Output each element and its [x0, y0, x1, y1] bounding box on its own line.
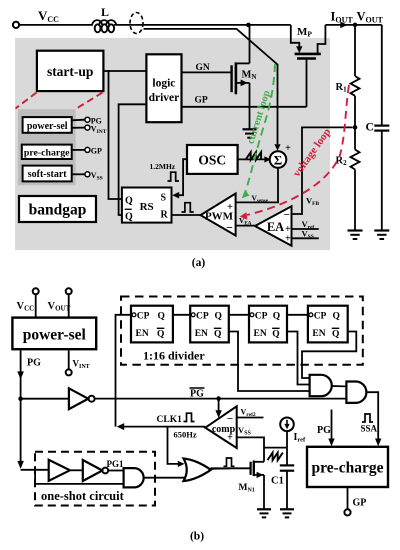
wire RS Q to logic driver [109, 71, 147, 199]
node GP terminal b [344, 509, 350, 515]
pulse symbol SSA [362, 414, 373, 422]
pulse symbol at S [168, 172, 180, 181]
logic driver block [146, 54, 181, 122]
svg-text:Q: Q [125, 212, 133, 223]
junction switch node [246, 23, 251, 28]
RS latch U-RS [122, 188, 172, 223]
svg-text:driver: driver [149, 92, 180, 104]
wire PGbar to comp enable [218, 399, 220, 412]
callout red dashed left [16, 93, 37, 109]
svg-text:Q: Q [273, 312, 280, 322]
wire VCC to inductor [19, 24, 93, 26]
oscillator OSC [187, 145, 238, 174]
gate AND2 [346, 382, 366, 403]
svg-text:one-shot circuit: one-shot circuit [41, 489, 125, 503]
pre-charge sub-block [22, 145, 72, 159]
arrowhead into summer left [264, 156, 270, 162]
svg-text:soft-start: soft-start [28, 169, 68, 180]
node VINT terminal b [66, 369, 72, 375]
ground MN1 [257, 509, 271, 517]
svg-text:EN: EN [195, 329, 208, 339]
arrowhead into OR [178, 461, 185, 467]
transistor MP [291, 25, 326, 107]
start-up internals panel [18, 109, 76, 185]
wire 650Hz branch to OR [168, 427, 180, 464]
wire VCC to power-sel [35, 294, 37, 317]
svg-text:EN: EN [254, 329, 267, 339]
svg-text:+: + [227, 202, 233, 213]
bandgap block [19, 196, 96, 222]
svg-text:CP: CP [137, 312, 150, 322]
wire PG into one-shot [21, 469, 49, 471]
wire VINT down [68, 349, 70, 369]
svg-text:power-sel: power-sel [23, 327, 87, 344]
soft-start sub-block [23, 166, 72, 182]
svg-text:R1: R1 [336, 82, 348, 94]
sawtooth symbol VSS ramp [268, 453, 283, 461]
svg-text:VCC: VCC [38, 8, 59, 24]
divider dashed box [121, 297, 363, 365]
gate AND1 [310, 375, 332, 396]
svg-text:Q: Q [272, 329, 279, 339]
pulse symbol MN1 gate [224, 458, 235, 466]
current source Iref [280, 418, 294, 432]
svg-text:+: + [285, 234, 291, 245]
wire B2 to AND3 [108, 470, 123, 472]
resistor R2 [336, 127, 360, 230]
wire FF1 Q to FF2 [173, 314, 190, 316]
gate OR [184, 459, 211, 482]
svg-text:OSC: OSC [198, 153, 226, 168]
wire VSS input [292, 237, 319, 239]
arrowhead CLK into divider [117, 423, 125, 430]
wire FF2 Q to FF3 [229, 314, 249, 316]
svg-text:RS: RS [140, 201, 154, 213]
svg-text:Q: Q [158, 312, 165, 322]
wire current sense line to summer [144, 29, 278, 144]
ground C [374, 231, 389, 240]
callout red dashed right [77, 93, 103, 109]
wire output rail [325, 24, 381, 26]
flip-flop FF3 [249, 306, 287, 343]
figure a background panel [15, 38, 330, 250]
svg-text:Q: Q [333, 312, 340, 322]
wire VOUT to power-sel [68, 294, 70, 317]
inductor L [92, 5, 116, 32]
flip-flop FF1 [131, 306, 173, 343]
arrowhead comp enable [215, 410, 221, 418]
junction R1 top [353, 23, 358, 28]
wire inductor to switch node [114, 24, 291, 26]
junction VFB node [353, 125, 358, 130]
wire one-shot lower branch [35, 470, 124, 484]
wire EA out to PWM minus [236, 225, 255, 227]
svg-text:PG1: PG1 [107, 459, 124, 469]
svg-text:VOUT: VOUT [357, 10, 384, 25]
wire RS Qbar to logic driver [119, 104, 147, 215]
start-up block [37, 51, 104, 91]
svg-text:Σ: Σ [274, 153, 283, 168]
svg-text:R2: R2 [336, 156, 348, 168]
summer sigma [270, 151, 287, 168]
arrowhead PG into pre-charge [328, 439, 334, 447]
wire OSC to RS S input [177, 159, 187, 195]
svg-text:1:16 divider: 1:16 divider [143, 349, 205, 363]
current loop dashed path [246, 64, 276, 192]
svg-text:PG: PG [190, 389, 204, 400]
svg-text:CP: CP [255, 312, 268, 322]
gate AND3 one-shot [124, 468, 144, 487]
arrowhead into summer top [274, 144, 280, 150]
wire VFB feedback [292, 127, 353, 214]
inverter PG [69, 388, 95, 409]
ground C1 [280, 509, 294, 517]
current loop arrowhead [242, 190, 250, 198]
node PG terminal [85, 117, 90, 122]
capacitor C1 [271, 465, 294, 509]
junction PGbar comp [216, 396, 221, 401]
transistor MN1 [211, 461, 265, 510]
svg-text:Q: Q [214, 329, 221, 339]
svg-text:+: + [227, 433, 233, 444]
transistor MN [182, 62, 257, 94]
capacitor C [366, 25, 390, 230]
wire B1 to B2 [70, 469, 83, 471]
wire PGbar net [95, 398, 347, 400]
node VSS terminal [85, 172, 90, 177]
svg-text:start-up: start-up [47, 64, 94, 79]
wire AND1 to AND2 [332, 385, 347, 387]
wire PG rail down [20, 349, 22, 467]
wire MN source to ground [249, 83, 251, 129]
node VCC terminal b [33, 288, 39, 294]
buffer B1 [49, 460, 70, 481]
wire inverter input [21, 398, 69, 400]
svg-text:SSA: SSA [361, 424, 378, 434]
arrowhead IOUT [340, 22, 347, 29]
wire OR to MN1 gate [210, 467, 231, 470]
wire FF2 Qbar to AND1 [229, 332, 310, 392]
error amp EA [255, 206, 292, 245]
wire AND3 to OR [144, 477, 186, 479]
wire MN drain [249, 25, 251, 64]
wire Iref to node [286, 431, 288, 465]
svg-text:EA: EA [267, 220, 284, 234]
power-sel sub-block [23, 117, 72, 133]
svg-text:logic: logic [152, 78, 175, 90]
svg-text:GP: GP [195, 95, 208, 105]
arrowhead PG oneshot [17, 461, 24, 469]
voltage loop arrowhead [240, 212, 248, 220]
svg-text:CP: CP [314, 312, 327, 322]
wire pre-charge to GP [72, 149, 85, 151]
pulse symbol CLK1 [184, 413, 195, 421]
wire PG to pre-charge [331, 410, 333, 441]
junction PG inverter [18, 396, 23, 401]
svg-text:GN: GN [196, 63, 210, 73]
comparator PWM [201, 194, 236, 236]
inverter B2 [83, 460, 108, 481]
node GP terminal [85, 147, 90, 152]
wire PWM out to RS R input [172, 214, 201, 216]
svg-text:−: − [284, 209, 290, 221]
svg-text:MP: MP [297, 26, 312, 39]
wire comp plus to C1 node [237, 437, 287, 461]
svg-text:Q: Q [125, 196, 133, 207]
wire FF3 Qbar to AND1 [287, 332, 310, 385]
svg-text:CP: CP [196, 312, 209, 322]
pulse symbol at R [182, 203, 194, 212]
svg-text:power-sel: power-sel [27, 121, 68, 132]
sawtooth symbol [246, 152, 262, 160]
svg-text:MN1: MN1 [239, 483, 255, 494]
svg-text:PG: PG [317, 425, 331, 436]
wire Vref2 [237, 417, 264, 419]
wire FF4 Qbar to AND1 [302, 332, 356, 379]
power-sel block b [12, 318, 96, 350]
wire GP out [347, 487, 349, 509]
wire Vref input [292, 228, 319, 230]
svg-text:Iref: Iref [294, 432, 307, 444]
node VINT terminal [85, 125, 90, 130]
wire soft-start to VSS [72, 173, 85, 175]
arrowhead SSA into pre-charge [375, 439, 381, 447]
wire power-sel to VINT [72, 127, 85, 129]
svg-text:VSS: VSS [238, 425, 251, 437]
svg-text:VOUT: VOUT [48, 301, 71, 313]
wire AND2 to SSA [366, 392, 378, 440]
svg-text:EN: EN [312, 329, 325, 339]
svg-text:(a): (a) [192, 257, 206, 269]
svg-text:−: − [226, 221, 233, 235]
wire divider clock input [116, 315, 206, 427]
svg-text:EN: EN [136, 329, 149, 339]
flip-flop FF2 [190, 306, 229, 343]
arrowhead PG down [17, 371, 24, 379]
svg-text:GP: GP [353, 498, 367, 509]
svg-text:1.2MHz: 1.2MHz [150, 162, 176, 171]
wire GP to MP gate [182, 106, 307, 108]
svg-text:Q: Q [157, 329, 164, 339]
svg-text:pre-charge: pre-charge [311, 460, 383, 477]
wire FF3 Q to FF4 [287, 314, 308, 316]
node VOUT terminal b [66, 288, 72, 294]
comparator comp [205, 406, 236, 448]
voltage loop dashed path [247, 85, 349, 215]
current sense ellipse [130, 13, 143, 34]
svg-text:C: C [366, 122, 374, 134]
svg-text:R: R [161, 210, 169, 221]
svg-text:IOUT: IOUT [331, 10, 354, 25]
pre-charge block b [307, 447, 388, 487]
svg-text:PG: PG [27, 358, 41, 369]
ground MN [243, 129, 257, 137]
one-shot dashed box [35, 452, 155, 506]
svg-text:Vref2: Vref2 [241, 407, 256, 418]
svg-text:GP: GP [91, 147, 102, 156]
svg-text:Q: Q [332, 329, 339, 339]
svg-text:C1: C1 [271, 476, 284, 487]
wire summer to PWM plus input [236, 168, 278, 203]
wire start-up to driver input [103, 70, 110, 72]
svg-text:pre-charge: pre-charge [24, 148, 70, 159]
wire OSC to summer [238, 158, 267, 160]
svg-text:S: S [161, 193, 167, 204]
arrowhead into S [172, 192, 179, 199]
svg-text:CLK1: CLK1 [157, 415, 183, 425]
svg-text:+: + [285, 143, 291, 154]
svg-text:−: − [227, 413, 233, 425]
resistor R1 [336, 25, 360, 128]
wire power-sel to PG [72, 119, 85, 122]
svg-text:Q: Q [215, 312, 222, 322]
flip-flop FF4 [308, 306, 348, 343]
ground R2 [348, 231, 363, 240]
label PGbar [190, 388, 205, 400]
svg-text:650Hz: 650Hz [174, 430, 197, 440]
svg-text:(b): (b) [190, 531, 204, 543]
node VCC input terminal [13, 22, 19, 28]
svg-text:VCC: VCC [17, 301, 35, 313]
svg-text:bandgap: bandgap [29, 202, 87, 219]
svg-text:L: L [101, 5, 109, 19]
svg-text:VINT: VINT [73, 359, 90, 371]
